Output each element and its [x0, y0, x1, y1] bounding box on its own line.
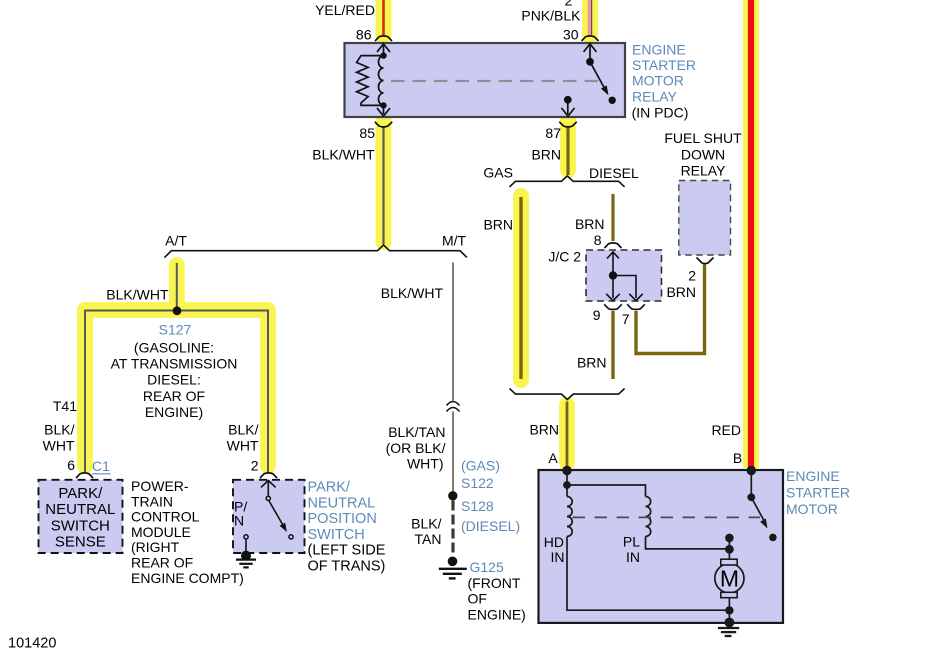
svg-text:TAN: TAN	[415, 531, 442, 547]
svg-text:S122: S122	[461, 475, 494, 491]
svg-text:FUEL SHUT: FUEL SHUT	[664, 130, 742, 146]
svg-text:(GAS): (GAS)	[461, 458, 500, 474]
svg-text:BLK/TAN: BLK/TAN	[388, 424, 445, 440]
svg-text:POSITION: POSITION	[308, 511, 377, 527]
svg-text:DIESEL:: DIESEL:	[147, 372, 201, 388]
svg-text:M/T: M/T	[442, 233, 467, 249]
svg-text:87: 87	[545, 125, 561, 141]
svg-text:6: 6	[67, 457, 75, 473]
svg-text:AT TRANSMISSION: AT TRANSMISSION	[111, 356, 238, 372]
svg-text:BRN: BRN	[483, 217, 513, 233]
svg-text:BLK/: BLK/	[228, 422, 258, 438]
svg-text:A: A	[548, 450, 558, 466]
svg-text:PARK/: PARK/	[58, 485, 103, 502]
svg-text:ENGINE COMPT): ENGINE COMPT)	[131, 570, 244, 586]
svg-text:POWER-: POWER-	[131, 478, 189, 494]
svg-text:S127: S127	[159, 322, 192, 338]
svg-text:(LEFT SIDE: (LEFT SIDE	[308, 543, 386, 559]
svg-text:MOTOR: MOTOR	[632, 73, 684, 89]
svg-text:(DIESEL): (DIESEL)	[461, 518, 520, 534]
svg-text:ENGINE: ENGINE	[632, 42, 686, 58]
svg-text:8: 8	[594, 232, 602, 248]
svg-text:9: 9	[593, 307, 601, 323]
svg-text:G125: G125	[470, 559, 504, 575]
svg-text:WHT: WHT	[43, 438, 75, 454]
svg-text:RELAY: RELAY	[681, 163, 727, 179]
svg-text:NEUTRAL: NEUTRAL	[308, 495, 376, 511]
svg-text:RED: RED	[711, 422, 741, 438]
svg-text:IN: IN	[551, 549, 565, 565]
svg-text:HD: HD	[544, 534, 564, 550]
svg-text:BLK/WHT: BLK/WHT	[312, 146, 375, 162]
svg-text:86: 86	[356, 27, 372, 43]
svg-text:WHT): WHT)	[407, 456, 444, 472]
svg-text:MODULE: MODULE	[131, 524, 191, 540]
svg-text:BLK/: BLK/	[411, 515, 441, 531]
svg-text:PNK/BLK: PNK/BLK	[521, 8, 581, 24]
svg-text:BRN: BRN	[529, 422, 559, 438]
svg-text:S128: S128	[461, 498, 494, 514]
svg-text:WHT: WHT	[227, 438, 259, 454]
svg-text:DIESEL: DIESEL	[589, 165, 639, 181]
svg-text:M: M	[720, 566, 739, 592]
svg-text:2: 2	[251, 458, 259, 474]
svg-text:101420: 101420	[8, 636, 56, 652]
svg-text:REAR OF: REAR OF	[143, 388, 205, 404]
svg-text:(IN PDC): (IN PDC)	[632, 104, 689, 120]
svg-text:ENGINE: ENGINE	[786, 468, 840, 484]
svg-text:N: N	[234, 513, 244, 529]
svg-text:(GASOLINE:: (GASOLINE:	[134, 340, 214, 356]
svg-text:BLK/: BLK/	[44, 422, 74, 438]
svg-text:STARTER: STARTER	[632, 57, 696, 73]
svg-text:ENGINE): ENGINE)	[468, 606, 526, 622]
svg-text:A/T: A/T	[165, 233, 187, 249]
svg-text:PL: PL	[623, 534, 640, 550]
svg-text:OF TRANS): OF TRANS)	[308, 559, 386, 575]
svg-text:ENGINE): ENGINE)	[145, 404, 203, 420]
svg-text:(RIGHT: (RIGHT	[131, 539, 180, 555]
svg-text:CONTROL: CONTROL	[131, 509, 200, 525]
svg-text:7: 7	[622, 311, 630, 327]
svg-text:BLK/WHT: BLK/WHT	[106, 287, 169, 303]
svg-text:(OR BLK/: (OR BLK/	[386, 440, 446, 456]
svg-text:(FRONT: (FRONT	[468, 575, 521, 591]
svg-text:BRN: BRN	[575, 216, 605, 232]
svg-text:C1: C1	[92, 458, 110, 474]
svg-text:SENSE: SENSE	[55, 534, 106, 551]
svg-text:SWITCH: SWITCH	[51, 517, 110, 534]
svg-text:30: 30	[563, 27, 579, 43]
svg-text:PARK/: PARK/	[308, 480, 351, 496]
svg-text:TRAIN: TRAIN	[131, 493, 173, 509]
svg-text:MOTOR: MOTOR	[786, 501, 838, 517]
svg-text:2: 2	[688, 268, 696, 284]
svg-text:GAS: GAS	[483, 165, 513, 181]
svg-text:STARTER: STARTER	[786, 485, 850, 501]
svg-text:OF: OF	[468, 591, 487, 607]
svg-text:DOWN: DOWN	[681, 146, 725, 162]
svg-text:B: B	[733, 450, 742, 466]
svg-text:REAR OF: REAR OF	[131, 555, 193, 571]
svg-text:BLK/WHT: BLK/WHT	[381, 285, 444, 301]
svg-text:IN: IN	[626, 549, 640, 565]
svg-text:SWITCH: SWITCH	[308, 527, 365, 543]
svg-text:T41: T41	[53, 398, 77, 414]
svg-text:BRN: BRN	[531, 146, 561, 162]
svg-text:NEUTRAL: NEUTRAL	[45, 501, 115, 518]
svg-text:BRN: BRN	[666, 284, 696, 300]
svg-text:85: 85	[359, 125, 375, 141]
svg-text:BRN: BRN	[577, 355, 607, 371]
svg-text:RELAY: RELAY	[632, 88, 678, 104]
svg-text:J/C 2: J/C 2	[548, 249, 581, 265]
svg-text:YEL/RED: YEL/RED	[315, 2, 375, 18]
